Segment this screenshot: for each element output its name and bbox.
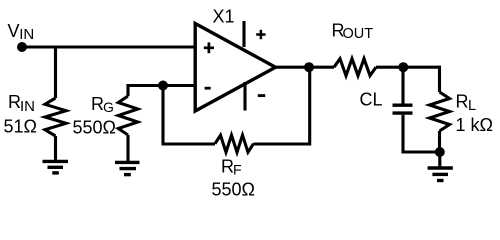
svg-text:V: V — [8, 21, 20, 41]
wire ROUT to load node — [376, 66, 440, 69]
node D ground junction dot — [435, 147, 445, 157]
wire RG bottom lead to ground — [126, 135, 129, 162]
wire CL bottom lead to ground rail — [403, 115, 440, 152]
wire RL bottom lead — [438, 131, 441, 152]
svg-text:550Ω: 550Ω — [73, 118, 117, 138]
wire RIN branch from input rail down — [54, 47, 57, 98]
wire feedback right vertical to output node — [308, 67, 311, 145]
svg-text:550Ω: 550Ω — [212, 180, 256, 200]
wire RL top lead — [438, 67, 440, 92]
wire op-amp output to ROUT — [276, 66, 335, 69]
wire feedback bottom left segment — [162, 142, 216, 145]
wire node A to op-amp inverting input — [163, 84, 195, 87]
svg-text:CL: CL — [360, 90, 383, 110]
svg-text:51Ω: 51Ω — [4, 117, 37, 137]
svg-text:OUT: OUT — [343, 26, 374, 42]
node B output junction dot — [304, 62, 314, 72]
wire feedback bottom right segment — [254, 142, 310, 145]
ground below RL — [428, 168, 453, 181]
label VIN — [8, 21, 35, 43]
wire RG top lead to inverting node — [128, 86, 163, 97]
svg-text:X1: X1 — [213, 7, 235, 27]
wire CL top lead — [401, 67, 404, 103]
op-amp negative supply pin — [243, 82, 246, 111]
ground below RG — [115, 162, 140, 174]
capacitor CL — [393, 105, 413, 113]
svg-text:IN: IN — [19, 26, 34, 43]
label RIN — [8, 92, 35, 115]
node VIN input terminal dot — [17, 42, 27, 52]
op-amp negative supply minus symbol — [258, 94, 265, 97]
svg-text:1 kΩ: 1 kΩ — [456, 115, 493, 135]
resistor RG — [118, 96, 137, 135]
op-amp minus input symbol — [205, 87, 211, 90]
svg-text:L: L — [468, 98, 476, 114]
op-amp X1 triangle — [195, 24, 275, 112]
op-amp positive supply pin — [242, 21, 245, 47]
wire RIN bottom lead to ground — [54, 136, 57, 161]
op-amp plus input symbol — [204, 42, 214, 53]
svg-text:G: G — [103, 99, 114, 115]
wire ground stub right — [438, 152, 441, 167]
wire feedback left vertical from node A — [161, 86, 164, 145]
ground below RIN — [43, 161, 69, 173]
node A inverting input junction dot — [158, 81, 168, 91]
resistor RIN — [45, 98, 66, 136]
op-amp positive supply plus symbol — [256, 30, 265, 39]
resistor ROUT — [334, 59, 376, 76]
wire VIN to op-amp noninverting input — [22, 45, 195, 48]
label RL — [456, 92, 477, 115]
svg-text:IN: IN — [20, 98, 35, 115]
node C load junction dot — [398, 62, 408, 72]
svg-text:R: R — [456, 92, 469, 112]
label ROUT — [332, 20, 374, 41]
svg-text:F: F — [233, 161, 242, 177]
label RG — [91, 94, 114, 115]
label RF — [221, 157, 242, 178]
resistor RL — [430, 92, 450, 131]
resistor RF — [215, 135, 254, 152]
